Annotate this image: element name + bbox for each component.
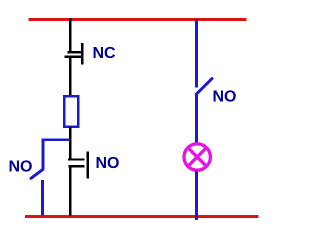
wire: lamp to bottom rail bbox=[195, 171, 198, 220]
wire: NC contact to resistor bbox=[69, 58, 72, 97]
top power rail bbox=[29, 18, 247, 21]
wire: NO contact to bottom rail bbox=[69, 166, 72, 216]
wire: blue branch vertical lower bbox=[41, 180, 44, 216]
wire: right branch middle (switch to lamp) bbox=[195, 95, 198, 144]
resistor (blue rectangle) bbox=[64, 96, 78, 127]
svg-text:NO: NO bbox=[95, 155, 119, 172]
wire: right branch top bbox=[195, 19, 198, 88]
wire: blue branch tee (horizontal) bbox=[42, 138, 70, 140]
svg-text:NO: NO bbox=[8, 159, 32, 176]
NO switch blade (blue, left branch) bbox=[31, 170, 43, 179]
wire: blue branch vertical upper bbox=[42, 138, 45, 169]
NC pushbutton contact (black) bbox=[65, 43, 84, 65]
bottom power rail bbox=[25, 215, 259, 218]
NO switch blade (blue, right branch) bbox=[196, 79, 212, 95]
svg-text:NO: NO bbox=[212, 89, 236, 106]
lamp (magenta indicator) bbox=[184, 144, 210, 170]
wire: top rail to NC contact bbox=[69, 18, 72, 53]
svg-text:NC: NC bbox=[92, 45, 116, 62]
NO pushbutton contact (black) bbox=[68, 152, 89, 179]
wire: resistor to NO contact bbox=[69, 127, 72, 160]
